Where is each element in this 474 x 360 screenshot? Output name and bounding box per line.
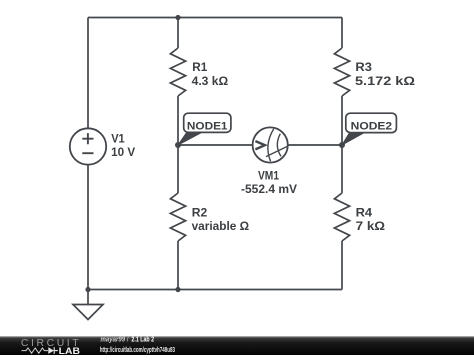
wire R3 top lead — [341, 18, 343, 49]
junction dot top rail / R1 — [175, 15, 180, 20]
svg-text:mayar99: mayar99 — [101, 335, 126, 344]
wire R2 bottom lead — [177, 241, 179, 290]
svg-text:VM1: VM1 — [258, 169, 279, 182]
svg-text:NODE1: NODE1 — [187, 120, 228, 132]
junction dot bottom rail / ground — [85, 287, 90, 292]
wire left branch upper — [87, 18, 89, 129]
wire R2 top lead — [177, 145, 179, 193]
svg-text:variable Ω: variable Ω — [192, 220, 250, 233]
node NODE1 flag tail — [178, 133, 201, 145]
node NODE1 flag box — [184, 113, 231, 132]
voltmeter VM1 dial arc 1 — [268, 129, 274, 162]
wire voltmeter to node B — [288, 144, 342, 146]
voltmeter VM1 body — [253, 127, 288, 162]
node NODE2 flag tail — [342, 133, 364, 145]
logo diode — [48, 347, 54, 354]
node NODE2 dot — [339, 142, 345, 148]
svg-text:V1: V1 — [111, 133, 125, 146]
svg-text:http://circuitlab.com/cypttvh7: http://circuitlab.com/cypttvh748u83 — [100, 345, 175, 354]
resistor R1 — [170, 48, 185, 96]
resistor R3 — [334, 48, 349, 96]
svg-text:R2: R2 — [192, 207, 208, 220]
svg-text:2.1 Lab 2: 2.1 Lab 2 — [131, 335, 154, 344]
svg-text:-552.4 mV: -552.4 mV — [241, 183, 297, 196]
junction dot bottom rail / R2 — [175, 287, 180, 292]
svg-text:7 kΩ: 7 kΩ — [356, 220, 386, 233]
wire bottom rail — [88, 289, 342, 291]
wire node A to voltmeter — [178, 144, 253, 146]
voltmeter VM1 needle — [266, 146, 288, 156]
svg-text:5.172 kΩ: 5.172 kΩ — [355, 75, 415, 88]
ground symbol — [73, 305, 103, 320]
svg-text:LAB: LAB — [59, 346, 80, 355]
wire R4 bottom lead — [341, 241, 343, 290]
wire top rail — [88, 17, 342, 19]
wire R4 top lead — [341, 145, 343, 193]
wire R1 top lead — [177, 18, 179, 49]
voltmeter VM1 dial arc 2 — [277, 134, 281, 157]
svg-text:R4: R4 — [356, 207, 373, 220]
svg-text:NODE2: NODE2 — [351, 120, 393, 132]
svg-text:10 V: 10 V — [111, 146, 135, 159]
wire left branch lower — [87, 165, 89, 290]
node NODE1 dot — [175, 142, 181, 148]
logo resistor squiggle — [22, 348, 48, 353]
voltage source V1 body — [70, 128, 106, 164]
svg-text:R1: R1 — [192, 61, 208, 74]
resistor R4 — [334, 193, 349, 241]
voltage source V1 plus sign — [82, 133, 93, 144]
wire ground stub — [87, 290, 89, 305]
wire R3 bottom lead to node B — [341, 96, 343, 145]
voltmeter VM1 chevron — [255, 141, 265, 149]
resistor R2 — [170, 193, 185, 241]
svg-text:R3: R3 — [355, 61, 372, 74]
voltage source V1 minus sign — [82, 152, 93, 154]
wire R1 bottom lead to node A — [177, 96, 179, 145]
footer bar — [0, 336, 474, 355]
svg-text:4.3 kΩ: 4.3 kΩ — [192, 75, 229, 88]
node NODE2 flag box — [346, 113, 397, 132]
